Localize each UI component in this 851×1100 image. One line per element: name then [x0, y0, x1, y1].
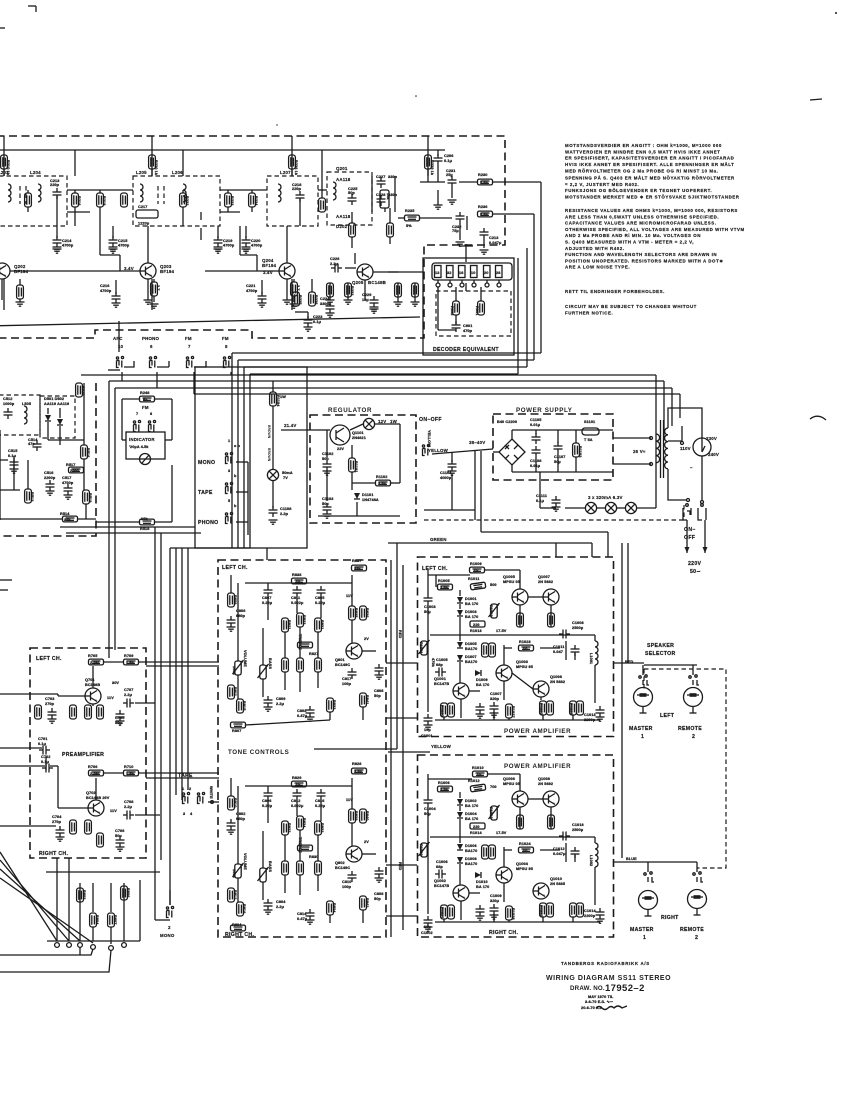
- svg-text:R806: R806: [126, 888, 130, 897]
- svg-text:R1022: R1022: [539, 703, 543, 715]
- svg-text:BROWN: BROWN: [267, 425, 271, 439]
- svg-text:R821: R821: [287, 620, 291, 629]
- svg-text:3: 3: [183, 812, 185, 816]
- svg-text:C704: C704: [52, 815, 62, 819]
- svg-text:8: 8: [225, 344, 228, 349]
- svg-text:4700p: 4700p: [246, 289, 258, 293]
- svg-text:4700p: 4700p: [100, 289, 112, 293]
- svg-text:Q1005: Q1005: [503, 575, 515, 579]
- svg-text:240V: 240V: [708, 452, 719, 457]
- svg-text:R829: R829: [292, 776, 301, 780]
- svg-text:700: 700: [490, 785, 497, 789]
- svg-text:D1004: D1004: [465, 812, 477, 816]
- svg-text:C515: C515: [8, 449, 17, 453]
- svg-text:R812: R812: [233, 890, 237, 899]
- svg-text:110V: 110V: [680, 446, 691, 451]
- svg-text:R514: R514: [60, 512, 70, 516]
- svg-text:C816: C816: [315, 799, 324, 803]
- svg-text:Q702: Q702: [86, 791, 96, 795]
- svg-text:MASTER: MASTER: [629, 726, 653, 732]
- svg-text:C1111: C1111: [536, 494, 547, 498]
- svg-text:R222: R222: [185, 196, 189, 205]
- svg-text:Q1004: Q1004: [516, 862, 529, 866]
- svg-text:D1002: D1002: [465, 799, 477, 803]
- svg-text:MOTSTANDER MERKET MED ∗ ER: MOTSTANDER MERKET MED ∗ ER STÖYSVAKE SJI…: [565, 194, 740, 199]
- svg-text:2N4821: 2N4821: [352, 436, 366, 440]
- svg-text:ON–OFF: ON–OFF: [419, 417, 442, 423]
- svg-text:MONO: MONO: [160, 933, 175, 938]
- svg-text:REGULATOR: REGULATOR: [328, 407, 372, 414]
- svg-text:R823: R823: [302, 615, 306, 624]
- svg-text:C707: C707: [124, 688, 133, 692]
- svg-text:C1005: C1005: [436, 658, 448, 662]
- svg-text:2200: 2200: [70, 469, 79, 473]
- svg-text:POWER AMPLIFIER: POWER AMPLIFIER: [504, 728, 571, 735]
- svg-text:DECODER EQUIVALENT: DECODER EQUIVALENT: [433, 347, 499, 353]
- svg-text:R1012: R1012: [489, 605, 493, 617]
- svg-text:RED: RED: [398, 630, 402, 638]
- svg-text:C220: C220: [251, 239, 260, 243]
- svg-text:R226: R226: [314, 295, 318, 304]
- svg-text:30V: 30V: [112, 681, 119, 685]
- svg-text:C1104: C1104: [440, 471, 452, 475]
- svg-text:RESISTANCE VALUES ARE OHMS: RESISTANCE VALUES ARE OHMS k=1000, M=100…: [565, 208, 738, 213]
- svg-text:R830: R830: [309, 855, 318, 859]
- svg-text:3.4V: 3.4V: [124, 266, 134, 271]
- svg-text:R220 1k: R220 1k: [154, 160, 158, 176]
- svg-text:4700p: 4700p: [62, 244, 74, 248]
- svg-text:3: 3: [228, 469, 230, 473]
- svg-text:POSITION UNOPERATED. RESISTO: POSITION UNOPERATED. RESISTORS MARKED WI…: [565, 258, 723, 263]
- svg-text:C708: C708: [124, 800, 133, 804]
- svg-text:2: 2: [695, 935, 698, 941]
- svg-text:MPSU 95: MPSU 95: [516, 867, 533, 871]
- svg-text:470k: 470k: [431, 658, 435, 668]
- svg-text:2.7: 2.7: [296, 285, 300, 291]
- svg-text:ARE A LOW NOISE TYPE.: ARE A LOW NOISE TYPE.: [565, 265, 630, 270]
- svg-text:R810: R810: [233, 798, 237, 807]
- svg-text:FM: FM: [222, 336, 229, 341]
- svg-text:Q201: Q201: [336, 166, 348, 171]
- svg-text:C226: C226: [330, 257, 339, 261]
- svg-text:0.1μ: 0.1μ: [444, 159, 453, 163]
- svg-text:VOLUME: VOLUME: [243, 650, 247, 667]
- svg-text:R804: R804: [232, 923, 242, 927]
- svg-text:320p: 320p: [490, 697, 500, 701]
- svg-text:R807: R807: [113, 915, 117, 924]
- svg-text:100k: 100k: [232, 869, 236, 879]
- svg-text:OFF: OFF: [684, 535, 695, 541]
- svg-text:20: 20: [484, 271, 488, 275]
- svg-text:R223: R223: [230, 196, 234, 205]
- svg-text:TAPE: TAPE: [178, 773, 193, 779]
- svg-text:T 5A: T 5A: [584, 438, 593, 442]
- svg-text:B40 C2200: B40 C2200: [497, 420, 517, 424]
- svg-text:RIGHT: RIGHT: [661, 915, 679, 921]
- svg-text:R235: R235: [405, 209, 414, 213]
- svg-text:Q1010: Q1010: [550, 877, 562, 881]
- svg-text:REMOTE: REMOTE: [678, 726, 702, 732]
- svg-text:0.047: 0.047: [553, 650, 563, 654]
- svg-text:MOTSTANDSVERDIER ER ANGITT: MOTSTANDSVERDIER ER ANGITT : OHM k=1000,…: [565, 143, 722, 148]
- svg-text:13: 13: [435, 271, 439, 275]
- svg-text:2.2k: 2.2k: [440, 788, 449, 792]
- svg-text:ER SPESIFISERT, KAPASITETSVER: ER SPESIFISERT, KAPASITETSVERDIER ER ANG…: [565, 156, 734, 161]
- svg-text:Q1006: Q1006: [503, 777, 515, 781]
- svg-text:11V: 11V: [107, 696, 114, 700]
- svg-text:R1029: R1029: [569, 703, 573, 715]
- svg-text:68p: 68p: [436, 663, 443, 667]
- svg-text:INDICATOR: INDICATOR: [129, 437, 155, 442]
- svg-text:5%: 5%: [406, 224, 412, 228]
- svg-text:12V: 12V: [378, 419, 386, 424]
- svg-text:R803: R803: [82, 890, 86, 899]
- svg-text:C809: C809: [276, 697, 285, 701]
- svg-text:MPSU 05: MPSU 05: [503, 580, 520, 584]
- svg-text:26 V≈: 26 V≈: [633, 449, 646, 454]
- svg-text:D501 D502: D501 D502: [44, 397, 64, 401]
- svg-text:= 2,2 V, JUSTERT MED R402.: = 2,2 V, JUSTERT MED R402.: [565, 182, 639, 187]
- svg-text:R1020: R1020: [440, 705, 444, 717]
- svg-text:GREEN: GREEN: [430, 537, 447, 542]
- svg-text:2: 2: [692, 734, 695, 740]
- svg-text:SELECTOR: SELECTOR: [645, 651, 676, 657]
- svg-text:C1018: C1018: [572, 823, 584, 827]
- svg-text:3.3k: 3.3k: [354, 770, 363, 774]
- svg-text:1000p: 1000p: [3, 402, 15, 406]
- svg-text:2: 2: [168, 925, 171, 930]
- svg-text:20-6-70 A.A.: 20-6-70 A.A.: [581, 1006, 604, 1010]
- svg-text:L206: L206: [172, 170, 183, 175]
- svg-text:R832: R832: [320, 823, 324, 832]
- svg-text:R1006: R1006: [438, 781, 450, 785]
- svg-text:4700p: 4700p: [251, 244, 263, 248]
- svg-text:1: 1: [182, 787, 184, 791]
- svg-text:C1001: C1001: [421, 734, 433, 738]
- svg-text:5.6k: 5.6k: [480, 181, 489, 185]
- svg-text:D1001: D1001: [465, 597, 477, 601]
- svg-text:28: 28: [496, 271, 500, 275]
- svg-text:R834: R834: [332, 903, 336, 913]
- svg-text:C703: C703: [45, 697, 54, 701]
- svg-text:C206: C206: [444, 154, 453, 158]
- svg-text:1: 1: [228, 439, 230, 443]
- svg-text:BASS: BASS: [268, 861, 272, 872]
- svg-text:1k: 1k: [477, 773, 482, 777]
- svg-text:1W: 1W: [280, 395, 286, 399]
- svg-text:R808: R808: [233, 595, 237, 604]
- svg-text:ARE LESS THAN 0,5WATT UNLE: ARE LESS THAN 0,5WATT UNLESS OTHERWISE S…: [565, 214, 719, 219]
- svg-text:R815: R815: [242, 701, 246, 710]
- svg-text:CIRCUIT MAY BE SUBJECT TO: CIRCUIT MAY BE SUBJECT TO CHANGES WHITOU…: [565, 304, 697, 309]
- svg-text:C512: C512: [3, 397, 12, 401]
- svg-text:C808: C808: [374, 892, 383, 896]
- svg-text:R837: R837: [352, 559, 361, 563]
- svg-text:2: 2: [189, 787, 191, 791]
- svg-text:AA118: AA118: [336, 214, 351, 219]
- svg-text:R1032: R1032: [539, 905, 543, 917]
- svg-text:S. Q403 MEASURED WITH A: S. Q403 MEASURED WITH A VTM - METER = 2,…: [565, 240, 694, 245]
- svg-text:R1102: R1102: [376, 475, 387, 479]
- svg-text:R225: R225: [298, 295, 302, 304]
- svg-text:TONE CONTROLS: TONE CONTROLS: [228, 749, 289, 756]
- svg-text:50μ: 50μ: [322, 457, 329, 461]
- svg-text:MASTER: MASTER: [630, 927, 654, 933]
- svg-text:2.2μ: 2.2μ: [276, 702, 285, 706]
- svg-text:4: 4: [190, 812, 193, 816]
- svg-text:2.2μ: 2.2μ: [330, 262, 339, 266]
- svg-text:'20μA 4.5k: '20μA 4.5k: [129, 445, 149, 449]
- svg-text:2500μ: 2500μ: [572, 828, 584, 832]
- svg-text:R233: R233: [350, 286, 354, 295]
- svg-text:MONO: MONO: [198, 460, 215, 466]
- svg-text:C1004: C1004: [424, 807, 436, 811]
- svg-text:WHITE: WHITE: [209, 786, 213, 799]
- svg-text:D1010: D1010: [476, 880, 488, 884]
- svg-text:0.047μ: 0.047μ: [553, 852, 566, 856]
- svg-text:HVIS IKKE ANNET ER SPESIFI: HVIS IKKE ANNET ER SPESIFISERT. ALLE SPE…: [565, 162, 734, 167]
- svg-text:2200μ: 2200μ: [584, 914, 596, 918]
- svg-text:47p: 47p: [28, 442, 35, 446]
- svg-text:BA170: BA170: [465, 660, 477, 664]
- svg-text:BF194: BF194: [160, 269, 175, 274]
- svg-text:R230: R230: [478, 173, 487, 177]
- svg-text:10: 10: [523, 849, 527, 853]
- svg-text:C701: C701: [38, 737, 47, 741]
- svg-text:BA 170: BA 170: [476, 885, 489, 889]
- svg-text:RETT TIL ENDRINGER FORBEHOL: RETT TIL ENDRINGER FORBEHOLDES.: [565, 289, 665, 294]
- svg-text:POWER AMPLIFIER: POWER AMPLIFIER: [504, 763, 571, 770]
- svg-text:33k: 33k: [354, 567, 361, 571]
- svg-text:6: 6: [150, 344, 153, 349]
- svg-text:270p: 270p: [52, 820, 62, 824]
- svg-text:R216: R216: [77, 196, 81, 205]
- svg-text:BA 170: BA 170: [465, 817, 478, 821]
- svg-text:C804: C804: [276, 900, 286, 904]
- svg-text:Q1008: Q1008: [550, 675, 562, 679]
- svg-text:R513: R513: [30, 492, 34, 501]
- svg-text:L205: L205: [136, 170, 147, 175]
- svg-text:Q1008: Q1008: [538, 777, 550, 781]
- svg-text:4000μ: 4000μ: [440, 476, 452, 480]
- svg-text:Q802: Q802: [335, 861, 345, 865]
- svg-text:L207: L207: [280, 170, 291, 175]
- svg-text:1N4748A: 1N4748A: [362, 498, 379, 502]
- svg-text:BC148B 20V: BC148B 20V: [86, 796, 110, 800]
- svg-text:R1028: R1028: [511, 908, 515, 920]
- svg-text:18μ: 18μ: [362, 298, 369, 302]
- svg-text:2.2p: 2.2p: [280, 512, 289, 516]
- svg-text:R816: R816: [242, 904, 246, 913]
- svg-text:BC147B: BC147B: [434, 884, 449, 888]
- svg-text:C221: C221: [246, 284, 255, 288]
- svg-text:7: 7: [136, 412, 138, 416]
- svg-text:OTHERWISE SPECIFIED, ALL VOL: OTHERWISE SPECIFIED, ALL VOLTAGES ARE ME…: [565, 227, 745, 232]
- svg-text:0.01μ: 0.01μ: [530, 423, 541, 427]
- svg-text:R901: R901: [475, 306, 479, 315]
- svg-text:BA170: BA170: [465, 849, 477, 853]
- svg-text:220V: 220V: [688, 561, 702, 567]
- svg-text:25μ: 25μ: [446, 173, 453, 177]
- svg-text:C215: C215: [118, 239, 127, 243]
- svg-text:C706: C706: [115, 829, 124, 833]
- svg-text:3.3k: 3.3k: [378, 482, 387, 486]
- svg-text:C224: C224: [320, 297, 330, 301]
- svg-text:C812: C812: [291, 799, 300, 803]
- svg-text:2200p: 2200p: [44, 476, 56, 480]
- svg-text:C1009: C1009: [490, 894, 502, 898]
- svg-text:Q1001: Q1001: [434, 677, 446, 681]
- svg-text:2V: 2V: [364, 840, 369, 844]
- svg-text:8: 8: [150, 412, 152, 416]
- svg-text:YELLOW: YELLOW: [431, 744, 452, 749]
- svg-text:R1002: R1002: [419, 844, 423, 856]
- svg-text:10: 10: [523, 647, 527, 651]
- svg-text:R705: R705: [88, 654, 97, 658]
- svg-text:C1013: C1013: [584, 713, 596, 717]
- svg-text:11V: 11V: [110, 809, 117, 813]
- svg-text:0.1μ: 0.1μ: [8, 454, 17, 458]
- svg-text:Q1007: Q1007: [538, 575, 550, 579]
- svg-text:1.5k: 1.5k: [126, 661, 135, 665]
- svg-text:R1001: R1001: [419, 642, 423, 654]
- svg-text:Q205: Q205: [352, 280, 364, 285]
- svg-text:R1012: R1012: [489, 807, 493, 819]
- svg-text:VOLUME: VOLUME: [243, 853, 247, 870]
- svg-text:C1014: C1014: [584, 909, 596, 913]
- svg-text:1W: 1W: [390, 419, 398, 424]
- svg-text:320μ: 320μ: [490, 899, 500, 903]
- svg-text:2.2μ: 2.2μ: [124, 805, 133, 809]
- svg-text:R236: R236: [478, 205, 487, 209]
- svg-text:POWER SUPPLY: POWER SUPPLY: [516, 407, 573, 414]
- svg-text:R811: R811: [233, 687, 237, 696]
- svg-text:21.4V: 21.4V: [284, 423, 296, 428]
- svg-text:500: 500: [490, 583, 497, 587]
- svg-text:R835: R835: [354, 608, 358, 617]
- svg-text:R248: R248: [140, 391, 149, 395]
- svg-text:R807: R807: [232, 729, 241, 733]
- svg-text:R706: R706: [88, 765, 97, 769]
- svg-text:BC147B: BC147B: [434, 682, 449, 686]
- svg-text:S1101: S1101: [584, 420, 595, 424]
- svg-text:C807: C807: [262, 596, 271, 600]
- svg-text:R525: R525: [81, 386, 85, 395]
- svg-text:100p: 100p: [342, 682, 352, 686]
- svg-text:PHONO: PHONO: [142, 336, 159, 341]
- svg-text:RIGHT CH.: RIGHT CH.: [39, 851, 68, 857]
- svg-text:L204: L204: [30, 170, 41, 175]
- svg-text:17952–2: 17952–2: [605, 983, 645, 994]
- svg-text:C1008: C1008: [572, 621, 584, 625]
- svg-text:BLUE: BLUE: [626, 857, 637, 861]
- svg-text:R1010: R1010: [472, 766, 484, 770]
- svg-text:BROWN: BROWN: [267, 448, 271, 462]
- svg-text:2N 5482: 2N 5482: [550, 680, 565, 684]
- svg-text:PREAMPLIFIER: PREAMPLIFIER: [62, 752, 104, 758]
- svg-text:R1024: R1024: [519, 842, 531, 846]
- svg-text:DRAW. NO.: DRAW. NO.: [570, 985, 605, 992]
- svg-text:C516: C516: [44, 471, 53, 475]
- svg-text:2.2μ: 2.2μ: [276, 905, 285, 909]
- svg-text:MPSU 05: MPSU 05: [503, 782, 520, 786]
- svg-text:C517: C517: [62, 476, 71, 480]
- svg-text:5.6k: 5.6k: [480, 213, 489, 217]
- svg-text:D1101: D1101: [362, 493, 373, 497]
- svg-text:D1006: D1006: [465, 844, 477, 848]
- svg-text:R226 1k: R226 1k: [294, 160, 298, 176]
- svg-text:R1013: R1013: [470, 629, 482, 633]
- svg-text:5: 5: [228, 499, 230, 503]
- svg-text:C901: C901: [463, 324, 472, 328]
- svg-text:LEFT CH.: LEFT CH.: [36, 656, 62, 662]
- svg-text:–: –: [690, 465, 693, 470]
- svg-text:L1002: L1002: [589, 855, 593, 866]
- svg-text:R841: R841: [365, 695, 369, 704]
- svg-text:R518: R518: [140, 527, 149, 531]
- svg-text:R838: R838: [292, 573, 301, 577]
- svg-text:C229: C229: [362, 293, 371, 297]
- svg-text:Q1101: Q1101: [352, 431, 364, 435]
- svg-text:SPENNING PÅ S. Q403 ER MÅL: SPENNING PÅ S. Q403 ER MÅLT MED NÖYAKTIG…: [565, 176, 735, 181]
- svg-text:D1005: D1005: [465, 642, 477, 646]
- svg-text:1k: 1k: [474, 569, 479, 573]
- svg-text:BC148B: BC148B: [368, 280, 386, 285]
- svg-text:TANDBERGS RADIOFABRIKK A/S: TANDBERGS RADIOFABRIKK A/S: [561, 961, 650, 966]
- svg-text:50p: 50p: [374, 694, 381, 698]
- svg-text:C803: C803: [297, 709, 306, 713]
- svg-text:C219: C219: [223, 239, 232, 243]
- svg-text:4700p: 4700p: [118, 244, 130, 248]
- svg-text:TAPE: TAPE: [198, 490, 213, 496]
- svg-text:C1105: C1105: [530, 418, 541, 422]
- svg-text:C217: C217: [138, 205, 147, 209]
- svg-text:o b: o b: [234, 444, 241, 448]
- svg-text:R836: R836: [365, 608, 369, 617]
- svg-text:C214: C214: [62, 239, 72, 243]
- svg-text:R822: R822: [287, 823, 291, 832]
- svg-text:50∼: 50∼: [690, 569, 701, 575]
- svg-text:R516: R516: [86, 448, 90, 457]
- svg-text:D1007: D1007: [465, 655, 477, 659]
- svg-text:FM: FM: [142, 405, 149, 410]
- svg-text:R1014: R1014: [470, 831, 482, 835]
- svg-text:0.1μ: 0.1μ: [38, 742, 47, 746]
- svg-text:7: 7: [188, 344, 191, 349]
- svg-text:16: 16: [459, 271, 463, 275]
- svg-text:LEFT CH.: LEFT CH.: [222, 565, 248, 571]
- svg-text:R519: R519: [88, 493, 92, 502]
- svg-text:2N 5485: 2N 5485: [550, 882, 565, 886]
- svg-text:10k: 10k: [141, 517, 148, 521]
- svg-text:MAY 1970 TIL: MAY 1970 TIL: [588, 995, 614, 999]
- svg-text:D1008: D1008: [465, 857, 477, 861]
- svg-text:470p: 470p: [463, 329, 473, 333]
- svg-text:C1003: C1003: [424, 605, 436, 609]
- svg-text:10: 10: [118, 344, 124, 349]
- svg-text:REMOTE: REMOTE: [680, 927, 704, 933]
- svg-text:L505: L505: [22, 402, 31, 406]
- svg-text:FURTHER NOTICE.: FURTHER NOTICE.: [565, 310, 613, 315]
- svg-text:17.5V: 17.5V: [496, 831, 507, 835]
- svg-text:C1103: C1103: [322, 497, 333, 501]
- svg-text:R517: R517: [66, 463, 75, 467]
- svg-text:50μ: 50μ: [322, 502, 329, 506]
- svg-text:R229 1k: R229 1k: [430, 160, 434, 176]
- svg-text:RED: RED: [398, 862, 402, 870]
- svg-text:SPEAKER: SPEAKER: [647, 643, 674, 649]
- svg-text:75μ: 75μ: [452, 229, 459, 233]
